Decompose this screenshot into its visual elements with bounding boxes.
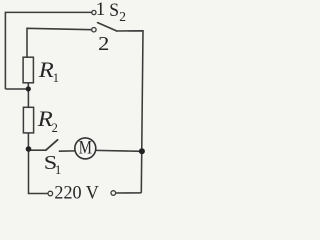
switch S1 pivot stub <box>31 149 47 151</box>
terminal 2 of S2 <box>92 28 96 32</box>
svg-text:1: 1 <box>55 163 61 177</box>
svg-text:220 V: 220 V <box>54 182 99 203</box>
wire top (outer loop to S2 contact 1) <box>5 12 91 89</box>
svg-text:R: R <box>38 57 54 82</box>
wire junction B down to bottom-left corner <box>29 149 48 194</box>
node junction B <box>26 146 32 152</box>
wire junction A to R2 <box>27 89 29 107</box>
node junction at motor right <box>139 148 145 154</box>
wire R2 bottom lead to junction B <box>27 133 29 149</box>
resistor R2 <box>23 107 33 133</box>
motor M <box>75 138 96 159</box>
switch S2 blade <box>98 23 117 31</box>
svg-text:1: 1 <box>53 71 59 85</box>
wire bottom-right to supply terminal <box>116 192 142 194</box>
terminal supply right <box>111 191 116 196</box>
wire R1 bottom lead <box>27 83 29 89</box>
svg-text:1: 1 <box>96 0 106 20</box>
wire motor right lead <box>96 149 142 152</box>
switch S1 blade <box>46 140 58 150</box>
terminal 1 of S2 <box>92 10 96 14</box>
wire S2 output to right border <box>116 31 143 193</box>
node junction A <box>26 86 31 91</box>
wire left border bottom to junction A <box>5 88 27 90</box>
svg-text:M: M <box>79 139 92 159</box>
svg-text:S: S <box>109 0 119 21</box>
svg-text:2: 2 <box>98 34 109 55</box>
wire inner branch horizontal to S2 contact 2 <box>27 28 92 57</box>
svg-text:2: 2 <box>119 9 126 24</box>
svg-text:2: 2 <box>52 121 58 135</box>
resistor R1 <box>23 57 33 83</box>
terminal supply left <box>48 191 53 196</box>
wire S1 fixed contact to motor <box>59 150 75 152</box>
